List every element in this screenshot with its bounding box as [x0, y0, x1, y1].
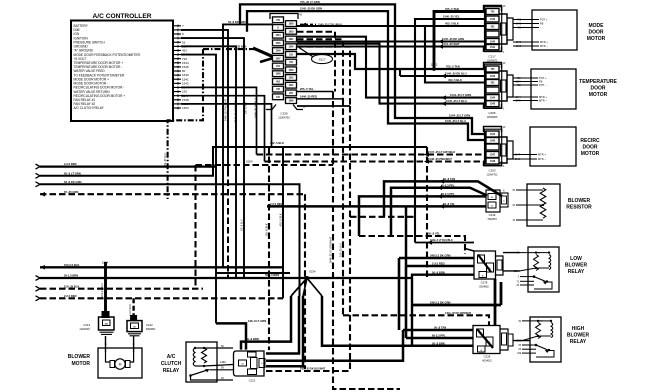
wire 67-.35 GRN (dashed, exits left)	[40, 193, 305, 195]
svg-text:8034632: 8034632	[482, 360, 492, 363]
svg-text:1950: 1950	[288, 24, 294, 26]
svg-text:1545: 1545	[490, 140, 496, 143]
svg-text:65-2.3 PPL: 65-2.3 PPL	[441, 183, 455, 187]
svg-text:1945-.35 LT GRN/BLK: 1945-.35 LT GRN/BLK	[235, 97, 238, 122]
svg-text:1946-.35 DK GRN/WHT: 1946-.35 DK GRN/WHT	[330, 236, 333, 263]
svg-text:RELAY: RELAY	[163, 368, 180, 374]
connector C218 body	[486, 190, 500, 212]
wire 63-.8 YEL to C218	[267, 205, 486, 208]
wire 1951-.35 DK BLU/WHT dashed	[266, 370, 350, 372]
blower resistor pin 50	[516, 189, 543, 191]
connector C205 top tab	[484, 63, 502, 69]
connector C230 pin L4 (1545)	[273, 40, 284, 46]
wire C228 to high relay	[513, 340, 530, 342]
wire 1545-.35 LT BLU/BLK label	[300, 23, 316, 25]
svg-text:50-1.0 BRN: 50-1.0 BRN	[64, 274, 78, 278]
wire vertical x236	[181, 46, 236, 278]
relay coil winding	[549, 255, 551, 270]
svg-text:CLUTCH: CLUTCH	[161, 361, 182, 367]
wire 198-.8 LT GRN to C221	[216, 323, 246, 349]
svg-text:C212: C212	[146, 323, 153, 327]
relay switch	[522, 344, 536, 346]
wire C278 to low relay	[503, 252, 520, 254]
connector C230 pin L2 (8)	[273, 25, 284, 31]
svg-text:MODE: MODE	[589, 23, 605, 29]
svg-text:2-3.0 RED: 2-3.0 RED	[432, 262, 445, 266]
svg-text:DOOR: DOOR	[591, 86, 606, 92]
svg-text:150-.35 BLK: 150-.35 BLK	[340, 243, 343, 257]
svg-text:DOOR: DOOR	[583, 145, 598, 151]
svg-text:452-.5 BLK: 452-.5 BLK	[279, 213, 283, 226]
connector C230 pin L3 (1544)	[273, 32, 284, 38]
blower motor leads	[105, 336, 107, 352]
svg-text:A/C CLUTCH RELAY: A/C CLUTCH RELAY	[74, 106, 105, 110]
wire 1545 via x379.5 to C205	[297, 44, 486, 104]
svg-text:MOTOR: MOTOR	[589, 92, 608, 98]
svg-text:1547: 1547	[275, 57, 281, 60]
connector C230 pin L7 (150)	[273, 63, 284, 69]
svg-text:C217: C217	[489, 54, 496, 58]
svg-text:RECIRC: RECIRC	[580, 138, 600, 144]
wire 1546-.35 DK BLU to C205	[400, 75, 486, 77]
connector C205 shell	[485, 64, 502, 108]
svg-text:MTR −: MTR −	[539, 99, 547, 103]
svg-text:MOTOR: MOTOR	[581, 151, 600, 157]
svg-text:2-2.0 RED: 2-2.0 RED	[64, 294, 77, 298]
wire 705-.35 LT GRN top line 1	[240, 4, 486, 134]
svg-text:1548-.35 PNK/WHT: 1548-.35 PNK/WHT	[428, 157, 452, 161]
svg-text:50-.8 TAN: 50-.8 TAN	[434, 326, 446, 330]
connector C217 top tab	[484, 6, 502, 12]
svg-text:63-.8 TAN: 63-.8 TAN	[443, 177, 455, 181]
svg-text:255-.5 YEL: 255-.5 YEL	[300, 87, 314, 91]
svg-text:MTR −: MTR −	[540, 44, 548, 48]
wire 150 heavy drop to C213	[104, 262, 107, 317]
svg-text:140A-.35 DK GRN/WHT: 140A-.35 DK GRN/WHT	[445, 312, 472, 315]
svg-text:1949-.5 LT BLU/BLK: 1949-.5 LT BLU/BLK	[430, 239, 453, 242]
svg-text:452-.5 BLK: 452-.5 BLK	[445, 22, 459, 26]
svg-text:1545: 1545	[288, 46, 294, 49]
wire 2-2.0 RED drop to C212 (dashed)	[132, 298, 134, 320]
svg-text:452-.5 BLK: 452-.5 BLK	[448, 78, 462, 82]
svg-text:S217: S217	[318, 57, 325, 61]
svg-text:POT +: POT +	[539, 76, 547, 80]
wire 2-3.0 RED to C278	[406, 265, 474, 268]
wire 705 to S242 and C205	[297, 54, 486, 69]
svg-text:MTR +: MTR +	[538, 153, 546, 157]
connector C230 pin L10 (735)	[273, 86, 284, 92]
svg-text:67-.35 GRN: 67-.35 GRN	[64, 190, 78, 194]
svg-text:LOW: LOW	[570, 256, 582, 262]
svg-text:452-.35 BLK: 452-.35 BLK	[164, 153, 167, 167]
wire 198 branch x216 down	[181, 55, 216, 324]
wire 452 T-branch to C217 and C205	[297, 25, 486, 27]
connector C230 top bracket	[270, 14, 298, 20]
wire IGN branch down x228	[181, 30, 228, 170]
svg-text:BLOWER: BLOWER	[68, 354, 91, 360]
svg-text:2-2.0 RED: 2-2.0 RED	[270, 202, 283, 206]
wire heavy entry C230 pin L6	[260, 58, 273, 62]
svg-text:A/C CONTROLLER: A/C CONTROLLER	[93, 13, 152, 20]
wire 150-.35 BLK (dashed)	[40, 288, 203, 290]
connector C205 pins	[486, 66, 499, 72]
wire 2-2.0 RED (left arrow group 1)	[40, 166, 217, 168]
svg-text:198-.8 LT GRN: 198-.8 LT GRN	[248, 319, 266, 323]
connector C230 pin R4 (1545)	[286, 44, 297, 50]
svg-text:1546: 1546	[490, 75, 496, 78]
svg-text:MOTOR: MOTOR	[71, 361, 90, 367]
svg-text:63-.8 DK GRN: 63-.8 DK GRN	[64, 180, 82, 184]
svg-text:C213: C213	[83, 323, 90, 327]
A/C clutch relay resistor	[202, 348, 207, 363]
svg-text:1946-.35 PNK/WHT: 1946-.35 PNK/WHT	[225, 98, 228, 121]
wire 1544 via x366 to C205	[297, 37, 486, 98]
HIGH BLOWER relay box	[530, 317, 561, 362]
wire 65-2.3 PPL to C218	[391, 188, 487, 236]
svg-text:C205: C205	[489, 111, 496, 115]
svg-text:C228: C228	[484, 355, 491, 359]
svg-text:150-.8 BLK: 150-.8 BLK	[265, 223, 269, 236]
wire 140A-.35 DK GRN/WHT dashed to C228	[343, 315, 489, 325]
wire 248-2.3 DK GRN heavy to C228	[412, 304, 501, 307]
svg-text:1961: 1961	[288, 39, 294, 41]
wire dashed vertical x343	[297, 39, 343, 99]
blower resistor pin 43	[516, 219, 543, 221]
svg-text:M: M	[119, 363, 122, 367]
svg-text:BLOWER: BLOWER	[568, 198, 591, 204]
connector C213	[102, 311, 110, 318]
svg-text:150C: 150C	[516, 341, 522, 343]
connector C217 bottom tab	[484, 47, 502, 52]
connector C230 pin R8 (1542)	[286, 75, 297, 81]
svg-text:DOOR: DOOR	[589, 30, 604, 36]
blower motor M1 box	[98, 348, 142, 378]
svg-text:C203: C203	[489, 169, 496, 173]
svg-text:S209: S209	[246, 160, 253, 164]
connector C230 pin R5 (150)	[286, 52, 297, 58]
svg-text:BLOWER: BLOWER	[567, 333, 590, 339]
connector C230 pin L9 (452)	[273, 79, 284, 85]
svg-text:FB: FB	[539, 80, 543, 84]
splice S209 dashed branch	[196, 164, 334, 166]
A/C clutch relay switch	[189, 374, 192, 377]
wire 65-2.3 PPL to C228	[406, 337, 473, 339]
wires C205 to temperature door motor	[513, 77, 524, 79]
svg-text:1545: 1545	[490, 103, 496, 106]
svg-text:C221: C221	[249, 379, 256, 383]
svg-text:65-2.3 PPL: 65-2.3 PPL	[441, 192, 455, 196]
connector C230 pin R9 (1541)	[286, 82, 297, 88]
wire heavy y353.5 C221 riser x299	[266, 296, 299, 354]
splice S217 oval	[312, 54, 333, 63]
svg-text:1646-.35 DK BLU: 1646-.35 DK BLU	[255, 98, 258, 118]
connector C230 legs	[266, 105, 276, 110]
wire 705-.5 TAN to C217	[434, 12, 486, 70]
connector C221 body	[234, 351, 265, 376]
svg-text:1541: 1541	[288, 84, 294, 87]
connector C278 side tab	[496, 256, 504, 275]
svg-text:1545-.35 DK GRN: 1545-.35 DK GRN	[442, 37, 464, 41]
svg-text:1548: 1548	[275, 73, 281, 76]
svg-text:1547: 1547	[490, 154, 496, 157]
svg-text:1540-.35 YEL: 1540-.35 YEL	[443, 15, 460, 19]
A/C clutch relay coil	[193, 348, 195, 366]
svg-text:1951-.35 DK BLU/WHT: 1951-.35 DK BLU/WHT	[300, 368, 326, 371]
connector C230 pin R6 (705)	[286, 59, 297, 65]
svg-text:MTR +: MTR +	[539, 95, 547, 99]
svg-text:12064752: 12064752	[487, 174, 498, 177]
svg-text:A/C: A/C	[167, 354, 176, 360]
splice S204	[104, 266, 108, 270]
svg-text:8903862: 8903862	[146, 328, 156, 331]
svg-text:7940354: 7940354	[487, 218, 497, 221]
relay coil winding	[551, 323, 553, 338]
svg-text:TEMPERATURE: TEMPERATURE	[579, 79, 617, 85]
svg-text:1545: 1545	[275, 42, 281, 45]
wire 65-2.3 PPL straight to C218	[359, 196, 486, 236]
connector C218 side tab	[500, 193, 508, 207]
connector C221 pin boxes	[248, 352, 257, 357]
connector C230 pin R11 (1946)	[286, 98, 297, 104]
wire dashed vertical x195.5	[194, 165, 196, 289]
svg-text:348-2.3 DK GRN: 348-2.3 DK GRN	[430, 254, 451, 258]
wire 1547-.35 LT GRY/BLK (dashed to C203)	[181, 87, 257, 154]
connector C217 side body	[499, 14, 507, 44]
connector C230 pin R2 (1953)	[286, 28, 297, 34]
svg-text:149A: 149A	[220, 361, 226, 364]
connector C217 pins	[486, 9, 499, 15]
svg-text:C230: C230	[280, 112, 288, 116]
wires C203 to recirc door motor	[513, 154, 523, 156]
svg-text:50-.8 BRN: 50-.8 BRN	[246, 337, 259, 341]
svg-text:B: B	[105, 342, 107, 346]
A/C clutch relay top rail and pin 50	[195, 347, 204, 349]
wire vertical 452-.5 BLK x283	[282, 147, 284, 298]
svg-text:1953: 1953	[182, 106, 189, 110]
wire 50-.8 BRN to C278	[412, 275, 474, 346]
wire 63-.8 DK GRN	[40, 184, 300, 296]
blower resistor pin 63 tap	[516, 204, 543, 206]
splice S242	[432, 67, 436, 71]
connector C228 side bracket	[501, 329, 509, 350]
connector C205 side body	[499, 71, 507, 101]
wire 1545-.35 DK GRN top line 2	[247, 11, 486, 140]
wires C217 to mode door motor	[513, 19, 525, 21]
svg-text:8204862: 8204862	[479, 286, 489, 289]
connector C230 pin R10 (255)	[286, 90, 297, 96]
svg-text:150-.8 BLK: 150-.8 BLK	[245, 101, 248, 114]
wire 50-.8 YEL dashed	[359, 236, 465, 254]
svg-text:1544: 1544	[490, 133, 496, 136]
svg-text:1544: 1544	[275, 34, 281, 37]
blower motor M1 symbol	[106, 352, 111, 362]
svg-text:1546-.35 DK BLU: 1546-.35 DK BLU	[445, 72, 467, 76]
wire 150-.35 BLK to C230 (dash-dot)	[203, 48, 255, 50]
A/C clutch relay K1 box	[186, 342, 217, 382]
wire 1946 stub	[297, 98, 343, 100]
svg-text:MTR −: MTR −	[538, 157, 546, 161]
svg-text:HIGH: HIGH	[572, 326, 585, 332]
svg-text:150-2.0 BLK: 150-2.0 BLK	[101, 283, 104, 297]
svg-text:50-.8 YEL: 50-.8 YEL	[428, 232, 440, 236]
svg-text:S234: S234	[309, 270, 316, 274]
relay coil resistor	[536, 323, 541, 339]
svg-text:MOTOR: MOTOR	[587, 36, 606, 42]
svg-text:53-.8 DK GRN: 53-.8 DK GRN	[228, 20, 246, 24]
svg-text:2-2.0 RED: 2-2.0 RED	[64, 162, 77, 166]
connector C230 pin L8 (1548)	[273, 71, 284, 77]
connector C228 body	[473, 326, 500, 354]
svg-text:C278: C278	[481, 281, 488, 285]
svg-text:12064752: 12064752	[278, 116, 290, 120]
wire 1949-.5 LT BLU/BLK	[415, 242, 474, 244]
svg-text:RESISTOR: RESISTOR	[566, 205, 592, 211]
connector C230 pin L6 (1547)	[273, 55, 284, 61]
wire dashed vertical x269	[268, 147, 270, 350]
connector C205 bottom tab	[484, 104, 502, 109]
wire 1548-.35 PNK/WHT (dashed to C203)	[181, 96, 265, 162]
svg-text:705-.5 TAN: 705-.5 TAN	[445, 7, 459, 11]
A/C controller U1 box	[71, 21, 173, 122]
wire 50-.8 TAN to C228	[403, 329, 473, 331]
wire heavy y360.8 C221 to x403	[266, 330, 403, 361]
wire 1541-.35 WHT to C217	[297, 45, 486, 47]
svg-text:1547-.35 LT GRY/BLK: 1547-.35 LT GRY/BLK	[428, 150, 455, 154]
wire 63-.8 TAN to C218 tab	[384, 181, 502, 216]
connector C212	[130, 315, 137, 321]
svg-text:2-2.0 RED: 2-2.0 RED	[129, 304, 132, 316]
svg-text:63-.8 BLK: 63-.8 BLK	[241, 219, 244, 230]
svg-text:POT +: POT +	[540, 18, 548, 22]
wire 50-1.0 BRN	[40, 277, 412, 279]
relay coil bottom rail and pin	[536, 267, 549, 269]
wire horizontal y273	[216, 272, 290, 274]
connector C217 shell	[485, 7, 502, 52]
wire 348-2.3 DK GRN to C278	[399, 257, 474, 260]
connector C203 pins	[486, 131, 499, 137]
svg-text:1549: 1549	[275, 50, 281, 53]
blower resistor R1 box	[527, 184, 560, 226]
svg-text:FB: FB	[540, 22, 544, 26]
wire 65-.8 LT GRN	[40, 147, 427, 176]
svg-text:50-.8 BRN: 50-.8 BRN	[432, 270, 445, 274]
A/C clutch relay bottom rail and pin 149A	[195, 365, 204, 367]
svg-text:1544-.35 LT GRN: 1544-.35 LT GRN	[449, 114, 470, 118]
wire 1545-.35 DK GRN to C217	[297, 40, 486, 42]
svg-text:1946-.35 RED: 1946-.35 RED	[300, 95, 317, 99]
svg-text:63-.8 YEL: 63-.8 YEL	[443, 202, 455, 206]
svg-text:C218: C218	[489, 213, 496, 217]
wire dashed vertical x305 (67 GRN drop)	[304, 194, 306, 369]
mode door motor M2 box	[532, 10, 577, 50]
wire dashed branch 1949 feeder	[350, 216, 415, 218]
connector C230 pin R3 (1961)	[286, 36, 297, 42]
connector C230 pin R7 (1546)	[286, 67, 297, 73]
svg-text:150A: 150A	[514, 270, 520, 273]
svg-text:RELAY: RELAY	[568, 269, 585, 275]
svg-text:1546: 1546	[288, 69, 294, 72]
svg-text:1548: 1548	[490, 160, 496, 163]
svg-text:248-2.3 DK GRN: 248-2.3 DK GRN	[430, 301, 451, 305]
svg-text:1542: 1542	[288, 77, 294, 80]
relay coil resistor	[534, 255, 539, 271]
relay pin 50 and top rail	[522, 320, 542, 322]
relay coil bottom rail and pin	[538, 335, 551, 337]
connector C230 pin L1 (705)	[273, 17, 284, 23]
svg-text:1545-.35 DK GRN: 1545-.35 DK GRN	[300, 7, 322, 11]
svg-text:705-.35 LT GRN: 705-.35 LT GRN	[300, 0, 320, 4]
wire riser x303 to C221	[266, 296, 303, 366]
wire riser x291 (50-.8 BRN to C221)	[241, 296, 291, 350]
splice S234 star	[305, 276, 309, 280]
svg-text:B: B	[133, 342, 135, 346]
connector C230 pin R1 (1950)	[286, 21, 297, 27]
recirc door motor M4 box	[530, 127, 576, 166]
svg-text:705-.5 TAN: 705-.5 TAN	[446, 65, 460, 69]
svg-text:1544: 1544	[490, 97, 496, 100]
wire branch x238	[181, 38, 244, 278]
svg-text:150-.35 BLK: 150-.35 BLK	[64, 284, 79, 288]
svg-text:RELAY: RELAY	[570, 339, 587, 345]
svg-text:150-2.0 BLK: 150-2.0 BLK	[64, 263, 79, 267]
connector C278 body	[474, 251, 496, 279]
wire 1949 top pin	[465, 249, 474, 252]
wire step row 1950 to y147	[181, 104, 272, 147]
svg-text:12034067: 12034067	[79, 328, 90, 331]
svg-text:1953: 1953	[288, 31, 294, 33]
wire riser x322 (50-.8 BRN to C228)	[322, 296, 473, 346]
svg-text:1540: 1540	[490, 18, 496, 21]
svg-text:POT −: POT −	[539, 83, 547, 87]
connector C203 shell	[485, 129, 502, 166]
wire 53-.8 DK GRN	[223, 24, 273, 267]
svg-text:1545-.35 LT BLU: 1545-.35 LT BLU	[445, 119, 466, 123]
wire dashed vertical x351 (1951 riser)	[297, 47, 350, 106]
svg-text:65-2.3 PPL: 65-2.3 PPL	[432, 334, 446, 338]
wire dashed vertical 1946-.35 DK GRN/WHT	[297, 32, 335, 92]
connector C230 pin L5 (1549)	[273, 48, 284, 54]
wire 150-2.0 BLK (exits left)	[40, 266, 283, 268]
svg-text:MTR +: MTR +	[540, 40, 548, 44]
connector C203 bottom tab	[484, 161, 502, 166]
blower resistor R1 zigzag	[540, 188, 546, 218]
wire 255-.5 YEL stub	[297, 91, 333, 93]
wire dash-dot jog 452-.35 BLK	[168, 49, 203, 199]
connector C203 top tab	[484, 127, 502, 133]
relay switch	[520, 276, 534, 278]
LOW BLOWER relay box	[528, 247, 559, 292]
connector C203 side body	[499, 137, 507, 163]
wire 2-2.0 RED (dashed lower)	[40, 297, 283, 299]
svg-text:1541: 1541	[490, 46, 496, 49]
temperature door motor M3 box	[531, 69, 576, 109]
svg-text:1544-.35 LT GRN: 1544-.35 LT GRN	[450, 93, 471, 97]
relay pin 50 and top rail	[520, 252, 540, 254]
svg-text:1541-.35 WHT: 1541-.35 WHT	[442, 42, 460, 46]
svg-text:BLOWER: BLOWER	[565, 263, 588, 269]
wire 1540-.35 YEL to C217 pin2	[415, 19, 486, 243]
svg-text:65-.8 LT GRN: 65-.8 LT GRN	[64, 171, 81, 175]
svg-text:12064869: 12064869	[487, 116, 498, 119]
connector C230 pin L11 (150)	[273, 94, 284, 100]
svg-text:1946: 1946	[288, 100, 294, 103]
svg-text:1545-.35 LT BLU: 1545-.35 LT BLU	[446, 99, 467, 103]
